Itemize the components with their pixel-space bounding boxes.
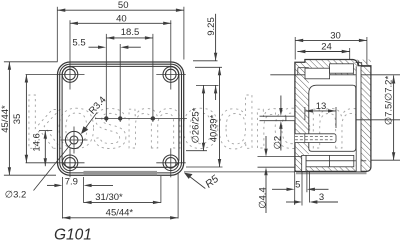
svg-text:9.25: 9.25 <box>206 17 217 36</box>
svg-text:∅7.5/∅7.2*: ∅7.5/∅7.2* <box>384 76 395 126</box>
svg-text:R5: R5 <box>203 173 221 191</box>
bottom gray edge band <box>84 171 158 175</box>
dimension 9.25 <box>193 14 219 100</box>
side view hatched lid band <box>305 60 371 75</box>
side view hatched right wall <box>356 75 371 172</box>
lid left shelf lines <box>298 67 309 69</box>
side view hatched left wall <box>295 75 309 172</box>
label d3.2 with leader <box>5 144 72 201</box>
dimension 40 top <box>70 13 171 25</box>
bottom screw slot <box>302 155 306 171</box>
dimension 45/44 left side <box>0 62 58 175</box>
boss channel in right wall <box>356 66 400 171</box>
dimension d4.4 <box>258 136 269 213</box>
lid right step edge <box>356 63 362 66</box>
svg-text:50: 50 <box>118 0 129 11</box>
side view outer outline <box>295 60 371 172</box>
svg-text:5: 5 <box>295 180 300 191</box>
screw boss top-right <box>156 20 185 89</box>
svg-text:45/44*: 45/44* <box>0 105 11 133</box>
dimension 3 <box>286 192 338 204</box>
svg-text:7.9: 7.9 <box>65 176 78 187</box>
dimension 18.5 <box>106 27 153 39</box>
svg-text:31/30*: 31/30* <box>95 192 123 203</box>
dimension 5.5 <box>72 37 140 49</box>
screw boss bottom-left <box>26 148 85 177</box>
svg-text:45/44*: 45/44* <box>106 207 134 218</box>
dimension 14.6 left side <box>32 131 53 167</box>
rail middle divider <box>328 155 330 166</box>
dimension 24 <box>297 42 349 60</box>
gray ledge line to side view <box>184 171 295 173</box>
svg-text:40/39*: 40/39* <box>208 114 219 142</box>
svg-text:∅3.2: ∅3.2 <box>5 190 26 201</box>
svg-text:G101: G101 <box>54 227 92 244</box>
svg-text:5.5: 5.5 <box>72 37 85 48</box>
svg-text:30: 30 <box>330 30 341 41</box>
dimension 5 <box>272 180 329 191</box>
svg-text:14.6: 14.6 <box>32 133 43 152</box>
side view hatched bottom band <box>306 167 367 172</box>
dimension 45/44 bottom <box>62 173 178 220</box>
side view dimensions <box>258 30 400 213</box>
svg-text:18.5: 18.5 <box>121 27 140 38</box>
svg-text:35: 35 <box>12 114 23 125</box>
label R5 with leader <box>184 173 221 191</box>
enclosure front view outer outline <box>58 62 184 175</box>
svg-text:∅2: ∅2 <box>272 136 283 150</box>
dimension d7.5/d7.2 <box>371 76 400 161</box>
dimension 7.9 bottom <box>47 176 113 218</box>
d2 nub on left wall <box>286 116 295 121</box>
gray shadow under side view bottom <box>296 172 367 174</box>
lid screw channel lower <box>305 68 330 79</box>
svg-text:24: 24 <box>321 42 332 53</box>
d4.4 hole extension lines <box>258 157 302 168</box>
lid right tab <box>359 61 371 67</box>
knockout centers row <box>95 34 187 122</box>
screw boss bottom-right <box>156 148 185 177</box>
label R3.4 with leader <box>81 95 109 134</box>
svg-text:40: 40 <box>116 13 127 24</box>
dimension 50 top <box>57 0 184 61</box>
enclosure front view middle outline <box>60 64 182 173</box>
mounting hole d3.2 <box>61 127 88 154</box>
enclosure front view inner lid outline <box>62 66 179 167</box>
svg-text:∅26/25*: ∅26/25* <box>190 107 201 143</box>
lid screw channel upper <box>330 64 354 73</box>
dimension 31/30 bottom <box>84 176 161 204</box>
dimension 35 left side <box>12 75 28 163</box>
svg-text:∅4.4: ∅4.4 <box>258 187 269 208</box>
rail line extension right <box>354 160 366 162</box>
lid joint line <box>270 74 400 76</box>
extension lines below side view <box>295 171 310 205</box>
dimension 13 <box>305 101 336 128</box>
pcb rail block lower <box>306 161 354 167</box>
d2 nub extension lines <box>260 115 286 117</box>
dimension d2 <box>272 96 283 151</box>
pcb rail block upper <box>306 155 354 160</box>
dimension d26/25 right side <box>186 85 207 150</box>
svg-text:3: 3 <box>319 192 324 203</box>
inner cavity outline <box>309 85 356 151</box>
dimension 40/39 right side <box>186 67 223 167</box>
wall mount boss tube <box>295 134 336 143</box>
svg-text:13: 13 <box>316 101 327 112</box>
screw boss top-left <box>26 20 85 89</box>
dimension 30 <box>295 30 367 64</box>
